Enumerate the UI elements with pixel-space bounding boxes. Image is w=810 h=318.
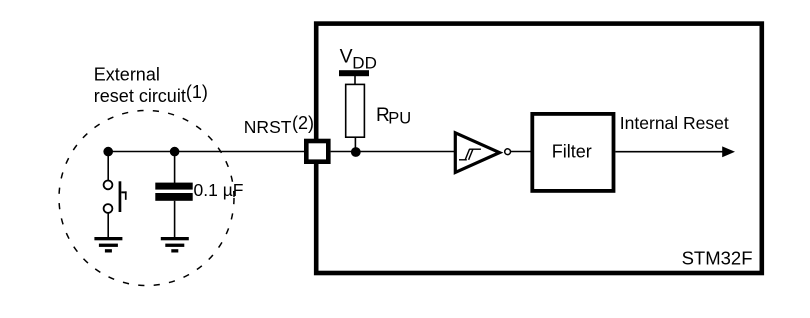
wire: capacitor bottom plate to ground	[174, 201, 176, 238]
MCU block outline U1 (STM32F)	[316, 24, 762, 273]
wire: VDD bar to resistor top	[354, 76, 356, 85]
arrowhead: internal reset	[722, 146, 735, 157]
svg-text:reset circuit: reset circuit	[94, 86, 186, 106]
junction: switch node	[103, 147, 113, 157]
junction: RPU / NRST node	[351, 147, 361, 157]
wire: internal reset output	[615, 151, 724, 153]
push button B1 top contact	[104, 181, 113, 190]
wire: node to capacitor top plate	[174, 152, 176, 184]
wire: node to switch top contact	[107, 152, 109, 181]
svg-text:0.1 µF: 0.1 µF	[194, 180, 244, 200]
svg-text:NRST: NRST	[244, 117, 292, 137]
label RPU	[376, 105, 411, 128]
NRST pin (square pad)	[306, 141, 328, 162]
capacitor C1 plates	[155, 183, 192, 201]
label VDD	[340, 46, 377, 73]
svg-text:(2): (2)	[292, 113, 314, 133]
schmitt trigger inverter body	[455, 133, 499, 173]
svg-text:PU: PU	[388, 110, 411, 128]
external reset circuit boundary (dashed circle)	[59, 111, 234, 286]
push button B1 bottom contact	[104, 204, 113, 213]
push button B1 actuator	[119, 181, 127, 212]
wire: NRST pin to schmitt trigger input	[331, 151, 455, 153]
svg-text:Internal Reset: Internal Reset	[620, 113, 729, 133]
svg-text:(1): (1)	[186, 82, 208, 102]
VDD supply bar	[339, 70, 369, 76]
ground (switch)	[94, 237, 122, 253]
inverter output bubble	[505, 149, 511, 155]
svg-text:STM32F: STM32F	[682, 247, 753, 268]
svg-text:External: External	[94, 65, 160, 85]
svg-text:Filter: Filter	[552, 142, 592, 162]
filter block	[532, 114, 613, 191]
junction: capacitor node	[170, 147, 180, 157]
wire: switch bottom contact to ground	[107, 213, 109, 238]
svg-text:DD: DD	[352, 54, 377, 73]
svg-text:V: V	[340, 46, 353, 68]
wire: inverter output to filter	[511, 151, 532, 153]
wire: resistor bottom to NRST node	[354, 137, 356, 152]
schmitt hysteresis symbol	[459, 149, 481, 160]
wire: NRST net (external side)	[108, 151, 305, 153]
resistor RPU body	[346, 84, 365, 137]
ground (capacitor)	[161, 237, 189, 253]
